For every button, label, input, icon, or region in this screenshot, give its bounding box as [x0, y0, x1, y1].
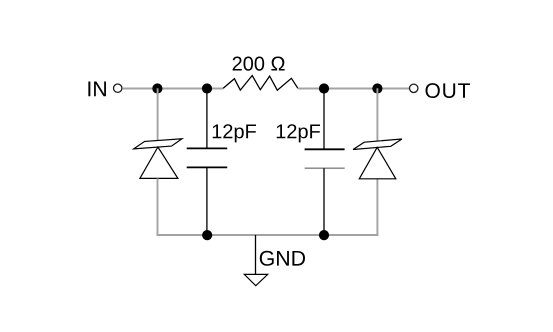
junction node J2	[202, 83, 212, 93]
junction node J4	[372, 83, 382, 93]
diode D2 zener cathode bar	[353, 139, 402, 150]
ground symbol	[244, 274, 267, 285]
junction node J5	[202, 230, 212, 240]
capacitor C2 top plate	[305, 148, 345, 150]
wire J1 to diode D1 cathode	[157, 88, 159, 141]
terminal OUT	[410, 84, 418, 92]
junction node J3	[319, 83, 329, 93]
diode D2 triangle	[359, 147, 396, 179]
wire resistor to OUT terminal	[298, 88, 409, 90]
junction node J6	[319, 230, 329, 240]
wire ground stub	[255, 235, 257, 274]
net label IN	[88, 82, 106, 97]
wire D1 anode to ground rail	[157, 178, 159, 235]
terminal IN	[114, 84, 122, 92]
label GND	[260, 251, 305, 266]
net label OUT	[425, 83, 469, 98]
resistor 200 ohm	[223, 76, 298, 91]
wire J4 to diode D2 cathode	[376, 88, 378, 142]
wire ground rail	[157, 234, 379, 236]
junction node J1	[152, 83, 162, 93]
diode D1 zener cathode bar	[134, 139, 182, 149]
wire C1 to ground rail	[206, 167, 208, 235]
label 12pF C1	[213, 124, 256, 142]
capacitor C1 top plate	[187, 147, 228, 149]
label 200 Ohm	[233, 57, 285, 71]
diode D1 triangle	[140, 147, 178, 178]
wire D2 anode to ground rail	[376, 179, 378, 236]
capacitor C2 bottom plate	[305, 167, 345, 169]
wire J3 to capacitor C2	[323, 88, 325, 149]
wire J2 to capacitor C1	[206, 88, 208, 148]
capacitor C1 bottom plate	[187, 166, 228, 168]
label 12pF C2	[277, 124, 320, 142]
wire IN terminal to resistor	[122, 88, 223, 90]
wire C2 to ground rail	[323, 168, 325, 235]
